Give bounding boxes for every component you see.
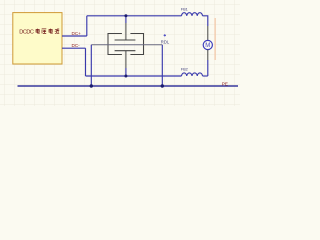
wire DC+ horizontal from block [62,35,87,37]
wire left pin down to PE [90,45,92,86]
motor pin top (dark) [207,26,209,40]
svg-text:DC-: DC- [72,43,81,48]
svg-text:PE: PE [222,81,228,86]
motor M1 circle [203,40,212,49]
svg-text:FB2: FB2 [181,67,188,72]
capacitor C1 right bracket electrode [130,34,143,55]
junction FB2 rail / cap bottom stem [124,75,127,78]
wire FB2 rail [86,75,182,77]
no-ERC marker (small blue cross) [164,34,166,36]
wire DC+ top rail [87,15,182,17]
svg-text:M: M [205,43,210,49]
block title CJK glyphs 电源电路 (drawn) [36,29,59,34]
svg-text:FB1: FB1 [181,6,188,11]
capacitor C1 left bracket electrode [108,34,122,55]
decorative orange guide line [214,18,216,60]
wire motor bottom to FB2 rail [207,60,209,76]
svg-text:DC+: DC+ [72,31,82,36]
capacitor C1 bottom plate [115,50,136,52]
capacitor C1 top pin (dark) [125,23,127,40]
capacitor C1 (X2Y feedthrough) top stem wire [125,16,127,23]
svg-text:DCDC: DCDC [19,29,34,35]
svg-text:RDL: RDL [161,40,170,45]
inductor FB1 (ferrite bead, 4 humps) [182,13,203,16]
capacitor C1 top plate [115,39,136,41]
wire DC- vertical down [85,48,87,76]
motor pin bottom (dark) [207,50,209,60]
junction top rail / cap stem [124,14,127,17]
junction PE / right pin wire [161,84,164,87]
wire DC+ vertical up [86,16,88,36]
inductor FB2 (ferrite bead, 4 humps) [182,73,203,76]
wire FB2 rail end [203,75,208,77]
capacitor C1 bottom pin (dark) [125,51,127,68]
wire PE rail [18,85,239,87]
capacitor C1 bottom stem wire [125,68,127,76]
wire top rail to corner [203,16,208,26]
DCDC power supply block (yellow sheet symbol) [13,13,62,64]
wire right pin down to PE [161,45,163,86]
wire DC- horizontal from block [62,47,86,49]
junction PE / left pin wire [90,84,93,87]
capacitor C1 through pin (dark, mid line) [91,44,162,46]
